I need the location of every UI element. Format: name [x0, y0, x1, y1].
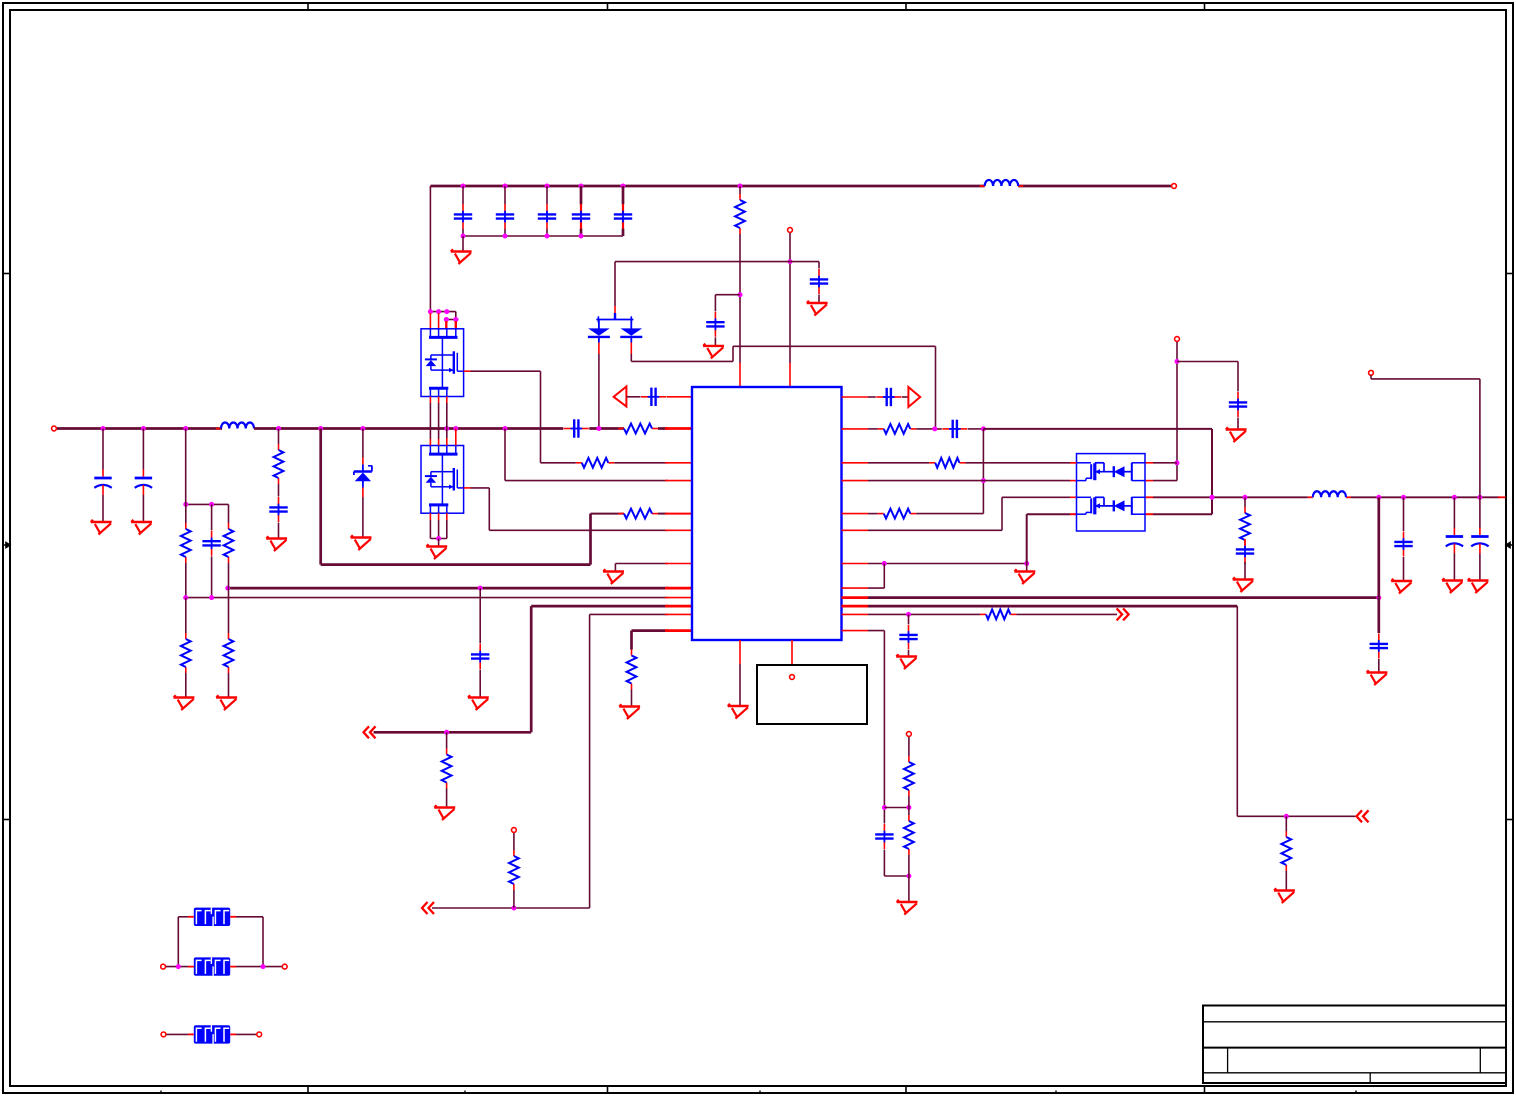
capacitor C18 [1370, 634, 1388, 659]
junction row11 r [511, 906, 516, 911]
pin stub IC pin R8 [842, 587, 869, 589]
wire bias horizontal [615, 261, 819, 263]
wire CP2 upper [142, 429, 144, 470]
resistor R8 [181, 633, 191, 673]
pin stub IC pin R1 [842, 396, 869, 398]
wire cap C2 upper [504, 186, 506, 204]
junction div884 [882, 805, 887, 810]
resistor R7 [224, 523, 234, 563]
pin stub IC bottom pin2 [791, 640, 793, 674]
capacitor C19 [1394, 532, 1412, 557]
junction row11 908 [906, 612, 911, 617]
junction div807 [906, 805, 911, 810]
pin stub IC pin R10 [842, 605, 869, 608]
wire row8 rail [228, 587, 668, 590]
wire chain186 feed [185, 429, 187, 505]
pin stub IC pin L7 [665, 563, 692, 565]
MOSFET Q2 [421, 446, 464, 514]
ground GND C20 [703, 344, 724, 359]
wire CP3 feed [1453, 497, 1455, 528]
wire row10 drop [530, 606, 533, 732]
zener diode Z1 [354, 429, 372, 538]
wire bias left drop [614, 262, 616, 306]
port arrow P1 [614, 387, 627, 407]
ferrite bead FB1 [188, 908, 236, 926]
wire fb1 lv [177, 917, 179, 967]
wire row1 right [868, 396, 876, 398]
off-page arrow A3 [1357, 810, 1369, 822]
ground GND CP1 [91, 520, 112, 535]
resistor R20 [1240, 507, 1250, 546]
wire D2 route v [732, 346, 734, 361]
wire v1177 [1176, 342, 1178, 481]
ground GND C11 [468, 695, 489, 710]
wire div gnd [908, 876, 910, 902]
wire 790 vertical [789, 233, 791, 363]
wire bias right drop [818, 262, 820, 269]
pin stub IC top pin1 [739, 363, 741, 387]
wire row11 right a [868, 613, 980, 615]
pin stub IC pin L9 [665, 597, 692, 599]
pin stub IC pin R12 [842, 630, 869, 632]
wire chain446 a [446, 732, 448, 748]
resistor R5 [618, 509, 658, 519]
pin stub q1q2 stub b430.4 [429, 439, 431, 446]
wire row11 left [590, 613, 668, 615]
wire D2 route h2 [733, 345, 936, 347]
inductor L3 [1308, 491, 1351, 497]
wire chain228 b [228, 563, 230, 588]
wire q1q2 v438.6 [438, 403, 440, 439]
junction rail 321 [318, 426, 323, 431]
pin stub IC pin R4 [842, 480, 869, 482]
ground GND R20 [1233, 577, 1254, 592]
capacitor C13 [942, 420, 967, 438]
MOSFET Q1 [421, 329, 464, 397]
pin stub q2 src stub 438.6 [438, 513, 440, 520]
wire D1 anode drop [598, 354, 600, 429]
ground GND C16 [1226, 427, 1247, 442]
wire n1177 right [1177, 361, 1238, 363]
pin stub M3 pin d3r [1145, 496, 1153, 498]
wire row10r bottom [1237, 815, 1355, 817]
wire chain1286 b [1285, 871, 1287, 890]
wire t1371 stub [1370, 376, 1372, 379]
wire row3 left [614, 462, 668, 464]
ground GND CP3 [1442, 578, 1463, 593]
wire R3 feed [278, 429, 280, 445]
wire div mid a [908, 796, 910, 808]
capacitor C12 [876, 388, 901, 406]
pin stub IC pin L6 [665, 529, 692, 531]
wire row6 to m3 [1002, 496, 1070, 498]
wire q1 pin3 lower [446, 403, 448, 429]
wire div mid b [908, 808, 910, 816]
wire CP2 lower [142, 495, 144, 522]
wire fb3 right [236, 1033, 256, 1035]
wire cap C5 upper [622, 186, 625, 204]
wire row6 up [1001, 497, 1003, 530]
wire q2 src v 438.6 [438, 520, 440, 539]
pin stub M3 pin d1r [1145, 462, 1153, 464]
wire cap C1 upper [462, 186, 464, 204]
junction fb2 b [261, 964, 266, 969]
capacitor C1 [454, 204, 472, 229]
wire R1 lower to IC pin [739, 234, 741, 363]
wire row9 rail [186, 597, 668, 599]
wire row2 right d [983, 428, 1212, 430]
left border arrow [3, 543, 10, 548]
wire drop 1212 [1211, 429, 1213, 514]
resistor R1 [735, 194, 745, 234]
wire row12 right [868, 630, 884, 632]
wire row10 left [531, 605, 668, 608]
ground GND C18 [1367, 670, 1388, 685]
resistor R13 [878, 424, 917, 434]
junction rail cp1 [101, 426, 106, 431]
pin stub q2 src stub 430.4 [429, 513, 431, 520]
capacitor C17 [1236, 539, 1254, 564]
ground GND CP4 [1468, 578, 1489, 593]
wire chain186 b [185, 563, 187, 598]
ground GND R8 [174, 695, 195, 710]
wire cap C1 lower [462, 229, 464, 236]
junction cap bus 547 [545, 234, 550, 239]
resistor R9 [224, 633, 234, 673]
off-page arrow A1 [364, 726, 376, 738]
wire div bar lower [884, 875, 909, 877]
off-page arrow A2 [422, 902, 434, 914]
wire chain228 a [228, 504, 230, 523]
wire CP1 upper [102, 429, 104, 470]
pin stub M1 pin2 [438, 313, 440, 329]
pin stub IC pin R7 [842, 563, 869, 565]
wire cap bus to ground [462, 236, 464, 252]
ground GND R16 [1274, 888, 1295, 903]
wire c20 gnd wire [714, 337, 716, 345]
wire row5 to IC [658, 513, 668, 515]
wire C6 to gnd [818, 295, 820, 304]
wire row8 right [868, 587, 884, 589]
pin stub IC pin L5 [665, 513, 692, 515]
wire CP4 lower [1479, 554, 1481, 581]
wire C8 gnd [278, 523, 280, 539]
wire D2 route drop [935, 346, 937, 429]
junction cap bus gnd [461, 234, 466, 239]
wire top rail left [430, 185, 984, 188]
wire row12 drop [630, 631, 633, 650]
pin stub IC pin L10 [665, 605, 692, 608]
junction n1177b [1175, 460, 1180, 465]
terminal T1371 [1369, 370, 1374, 375]
pin stub IC bottom pin1 [739, 640, 741, 664]
wire m3 g2 wire [1153, 480, 1177, 482]
ground GND Z1 [351, 535, 372, 550]
wire fb1 rv [262, 917, 264, 967]
wire m3 d2 wire [1153, 513, 1212, 515]
resistor R10 [442, 749, 452, 789]
wire c1238 gnd [1237, 418, 1239, 429]
ground GND C19 [1391, 579, 1412, 594]
junction top rail cap 4 [579, 184, 584, 189]
resistor R19 [904, 815, 914, 855]
capacitor C10 [202, 531, 220, 556]
wire chain212 a [211, 504, 213, 530]
wire out rail a [1153, 496, 1308, 498]
pin stub q2 pin3 stub [446, 438, 448, 446]
wire chain1403 b [1403, 557, 1405, 581]
wire row3 right a [868, 462, 929, 464]
wire fb2 left [166, 966, 188, 968]
junction q2 src [436, 536, 441, 541]
junction cap bus 581 [579, 234, 584, 239]
wire cap C3 lower [546, 229, 548, 236]
junction row8 480 [478, 586, 483, 591]
junction out 1212 [1210, 495, 1215, 500]
junction row2 934 [932, 426, 937, 431]
resistor R14 [929, 458, 965, 468]
wire bar504 [186, 503, 229, 505]
pin stub M1 pin4 [455, 321, 457, 329]
junction row9 b [209, 595, 214, 600]
resistor R17 [980, 610, 1016, 620]
IC U1 [692, 387, 842, 640]
pin stub M3 pin s2 [1070, 513, 1077, 515]
wire row2 right c [968, 428, 984, 430]
wire chain186 d [185, 673, 187, 697]
wire q2 src v 446.8 [446, 520, 448, 539]
off-page arrow A4 [1117, 608, 1129, 620]
junction rail m4 [453, 426, 458, 431]
pin stub q2 src stub 446.8 [446, 513, 448, 520]
wire chain1403 a [1403, 497, 1405, 531]
junction top rail cap 3 [545, 184, 550, 189]
junction top rail cap 1 [461, 184, 466, 189]
wire fb h [1371, 378, 1480, 380]
wire row7 drop [614, 564, 616, 572]
junction row7 1026 [1024, 561, 1029, 566]
resistor R12 [627, 650, 637, 690]
junction out 1454 [1452, 495, 1457, 500]
junction bar504 a [183, 502, 188, 507]
junction rail d1 [596, 426, 601, 431]
junction rail cp2 [141, 426, 146, 431]
pin stub M1 pin3 [445, 321, 447, 329]
ground GND cap bus [451, 249, 472, 264]
resistor R3 [274, 444, 284, 484]
capacitor C4 [572, 204, 590, 229]
junction fb2 a [176, 964, 181, 969]
wire row1 left a [626, 396, 640, 398]
pin stub M3 pin d3 [1070, 496, 1077, 498]
terminal TB1 [161, 964, 166, 969]
wire div bar upper [884, 807, 909, 809]
pin stub out rail border stub [1498, 496, 1506, 498]
wire bpin1 gnd [739, 664, 741, 706]
junction out 1378 [1376, 495, 1381, 500]
terminal VBAT left [52, 426, 57, 431]
wire cap C2 lower [504, 229, 506, 236]
wire cap C4 lower [580, 229, 583, 236]
capacitor C14 [899, 625, 917, 650]
wire chain480 b [479, 670, 481, 698]
capacitor C2 [496, 204, 514, 229]
wire row2 right b [916, 428, 942, 430]
polarized capacitor CP3 [1446, 528, 1463, 554]
wire row1 right b [902, 396, 909, 398]
wire Q2 gate h [471, 487, 490, 489]
inductor L2 [980, 180, 1024, 186]
wire top rail right [1018, 185, 1171, 188]
wire R3-C8 [278, 484, 280, 497]
wire row10r drop [1236, 606, 1238, 816]
ground GND U1 [728, 704, 749, 719]
wire chain1245 a [1244, 497, 1246, 507]
wire row12 gnd [631, 690, 633, 707]
wire Q1 gate v [540, 371, 542, 463]
pin stub IC pin L3 [665, 462, 692, 464]
junction bar504 b [209, 502, 214, 507]
capacitor C11 [471, 644, 489, 669]
junction m1d [444, 317, 449, 322]
wire m3 s2 wire [1027, 513, 1070, 515]
diode D1 [588, 320, 610, 355]
pin stub q1q2 stub b438.6 [438, 439, 440, 446]
module box X1 [757, 665, 867, 724]
wire row5 h [591, 513, 625, 515]
wire chain228 d [228, 673, 230, 697]
ground GND div [897, 900, 918, 915]
wire v983 [982, 429, 984, 514]
junction top rail cap 5 [621, 184, 626, 189]
resistor R2 [618, 424, 658, 434]
wire lower rail 565 [321, 563, 591, 566]
junction row2 983 [981, 426, 986, 431]
wire Q1 gate h [471, 370, 541, 372]
wire chain1245 b [1244, 562, 1246, 579]
ground GND C6 [807, 301, 828, 316]
capacitor C5 [614, 204, 632, 229]
wire cap C3 upper [546, 186, 548, 204]
ground GND row7 [603, 569, 624, 584]
ground GND row7r [1014, 569, 1035, 584]
ferrite bead FB3 [188, 1025, 236, 1043]
wire chain513 a [513, 890, 515, 908]
pin stub M1 pin1 [429, 313, 431, 329]
wire row12 left [632, 629, 669, 632]
pin stub IC pin L8 [665, 587, 692, 590]
junction rail 186 [183, 426, 188, 431]
wire chain186 c [185, 598, 187, 633]
wire row5 right a [868, 513, 878, 515]
pin stub IC pin R11 [842, 613, 869, 615]
wire m3 s2 up [1026, 514, 1028, 563]
wire Q1 gate h2 [541, 462, 576, 464]
wire row7 right [868, 563, 1027, 565]
capacitor C3 [538, 204, 556, 229]
pin stub q1q2 stub a430.4 [429, 397, 431, 404]
wire row11 right b [1016, 613, 1117, 615]
pin stub IC pin L4 [665, 480, 692, 482]
junction m1a [428, 309, 433, 314]
M1 feed bar [430, 312, 458, 320]
capacitor C9 [641, 388, 666, 406]
wire chain212 b [211, 556, 213, 597]
wire chain480 a [479, 588, 481, 643]
wire row2 right a [868, 428, 878, 430]
wire main rail a [57, 427, 222, 430]
junction out 1245 [1243, 495, 1248, 500]
pin stub q1 pin3 lower a [446, 397, 448, 404]
capacitor C8 [269, 497, 287, 522]
wire c20 branch [715, 294, 740, 296]
wire row3 right b [965, 462, 1070, 464]
pin stub M3 pin g1 [1070, 462, 1077, 464]
polarized capacitor CP4 [1471, 528, 1488, 554]
pin stub IC pin R9 [842, 596, 869, 599]
wire row7 gnd drop [1026, 564, 1028, 572]
junction top resistor feed [738, 184, 743, 189]
wire row6 right [868, 529, 1002, 531]
wire chain1286 a [1285, 816, 1287, 831]
wire Q2 gate v [488, 488, 490, 530]
junction out 1403 [1401, 495, 1406, 500]
pin stub IC pin R6 [842, 529, 869, 531]
inductor L1 [216, 423, 259, 429]
wire row12 drop [883, 631, 885, 824]
pin stub IC pin L12 [665, 629, 692, 632]
wire cap C4 upper [580, 186, 583, 204]
terminal VREF top [788, 228, 793, 233]
ground GND C14 [896, 654, 917, 669]
junction cap bus 505 [503, 234, 508, 239]
wire cap C5 lower [622, 229, 625, 236]
wire m3 d1 wire [1153, 462, 1177, 464]
junction top rail cap 2 [503, 184, 508, 189]
junction n1177a [1175, 359, 1180, 364]
pin stub M3 pin s1 [1070, 480, 1077, 482]
terminal TB2 [282, 964, 287, 969]
wire row6 left [489, 529, 668, 531]
pin stub IC pin L11 [665, 613, 692, 615]
diode D2 [620, 320, 642, 355]
wire chain186 a [185, 504, 187, 523]
wire row5 drop [589, 514, 592, 565]
wire chain1378 a [1377, 497, 1380, 597]
wire row9 right [868, 596, 1379, 599]
wire row4 left [505, 480, 668, 482]
resistor R16 [1281, 831, 1291, 871]
ferrite bead FB2 [188, 957, 236, 975]
wire main rail c [589, 427, 624, 430]
wire row4 drop [504, 429, 506, 481]
wire fb1 left [178, 916, 188, 918]
terminal T513 [512, 828, 517, 833]
junction m1b [436, 309, 441, 314]
ground GND R9 [216, 695, 237, 710]
wire chain1378 b [1377, 598, 1380, 633]
wire main rail b [254, 427, 563, 430]
junction out 1480 [1477, 495, 1482, 500]
wire row4 right [868, 480, 1070, 482]
pin stub M3 pin g2r [1145, 480, 1153, 482]
pin stub IC pin R2 [842, 428, 869, 430]
pin stub q1q2 stub a438.6 [438, 397, 440, 404]
resistor R11 [509, 850, 519, 890]
junction rail zener [360, 426, 365, 431]
wire chain513 b [513, 833, 515, 850]
terminal VIN top right [1172, 184, 1177, 189]
